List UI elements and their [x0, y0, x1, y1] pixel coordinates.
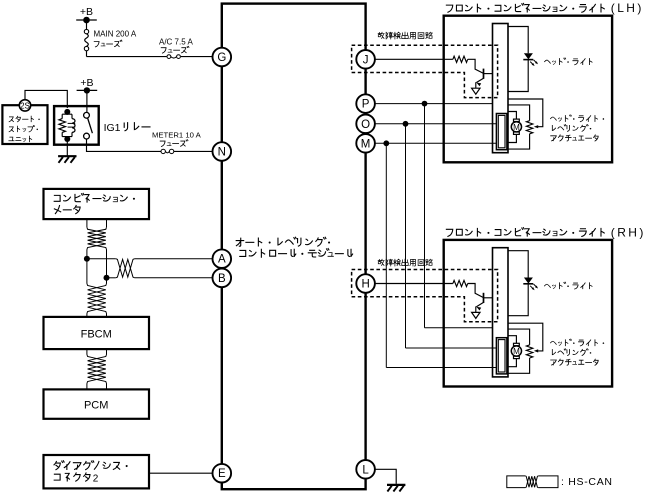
svg-text:M: M	[513, 123, 520, 132]
svg-text:E: E	[218, 468, 226, 480]
svg-text:N: N	[218, 147, 226, 159]
svg-text:G: G	[217, 52, 226, 64]
svg-text:B: B	[218, 273, 226, 285]
svg-text:+B: +B	[80, 6, 93, 18]
svg-text:IG1: IG1	[104, 122, 121, 134]
svg-text:(LH): (LH)	[611, 1, 644, 15]
svg-text:L: L	[362, 464, 369, 476]
svg-text:FBCM: FBCM	[81, 328, 112, 340]
svg-text:J: J	[363, 54, 369, 66]
svg-text:A: A	[218, 254, 226, 266]
svg-text:METER1 10 A: METER1 10 A	[152, 131, 202, 140]
svg-text:M: M	[513, 347, 520, 356]
svg-text:H: H	[361, 279, 369, 291]
svg-text:P: P	[362, 99, 370, 111]
svg-text:O: O	[361, 119, 370, 131]
svg-text:MAIN 200 A: MAIN 200 A	[94, 30, 137, 39]
svg-text:: HS-CAN: : HS-CAN	[561, 476, 613, 488]
svg-text:M: M	[361, 138, 371, 150]
svg-text:(RH): (RH)	[611, 225, 646, 239]
svg-text:2S: 2S	[20, 101, 30, 110]
svg-text:+B: +B	[80, 77, 93, 89]
svg-text:PCM: PCM	[84, 400, 108, 412]
svg-text:A/C 7.5 A: A/C 7.5 A	[159, 38, 193, 47]
svg-text:2: 2	[93, 473, 99, 484]
